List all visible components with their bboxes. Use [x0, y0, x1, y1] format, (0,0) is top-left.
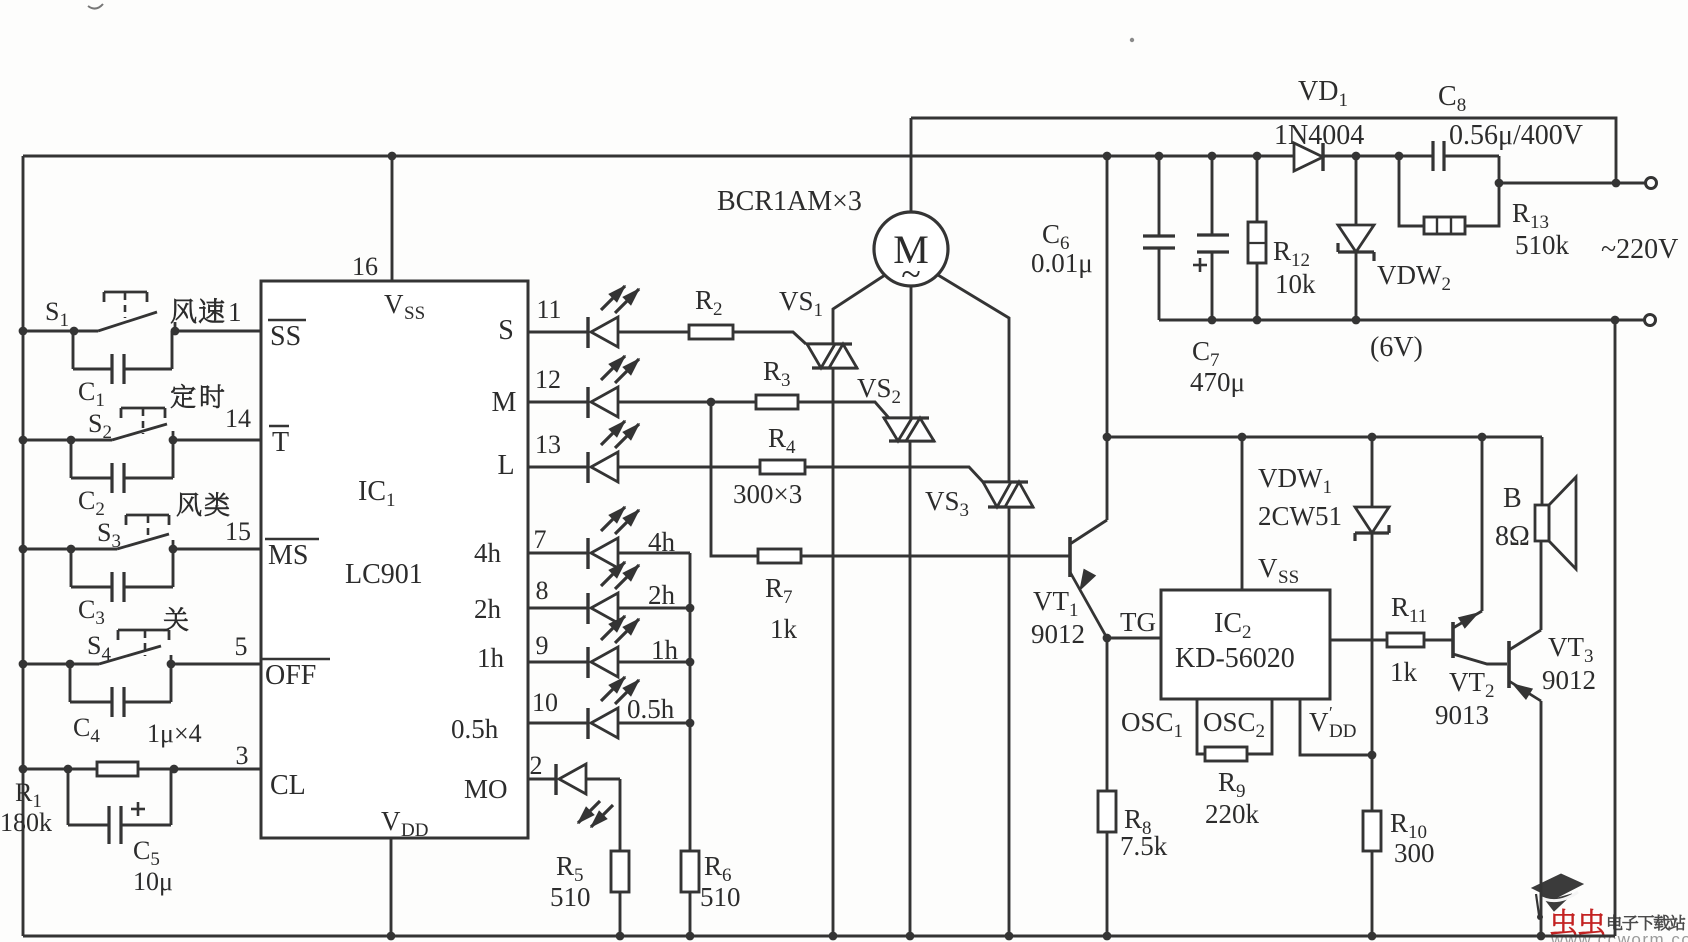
capacitor C3 — [70, 549, 73, 587]
svg-text:V: V — [1309, 707, 1329, 737]
svg-text:L: L — [497, 450, 514, 481]
svg-text:12: 12 — [535, 365, 561, 394]
svg-text:0.5h: 0.5h — [627, 694, 675, 724]
wire hour bus vertical — [689, 553, 692, 851]
svg-text:BCR1AM×3: BCR1AM×3 — [717, 186, 862, 217]
svg-text:300: 300 — [1394, 838, 1435, 868]
svg-text:1h: 1h — [477, 643, 505, 673]
pin VDD IC1 — [390, 838, 393, 936]
label guan — [164, 607, 188, 630]
resistor R2 — [689, 325, 733, 339]
zener VDW1 — [1371, 437, 1374, 507]
IC U1 LC901 box — [261, 281, 528, 838]
svg-text:9012: 9012 — [1542, 665, 1596, 695]
pin VSS IC1 — [391, 156, 394, 281]
triac VS3 — [982, 480, 1028, 483]
wire VS2 to rail — [909, 441, 912, 936]
wire VS1 to rail — [832, 368, 835, 936]
switch S1 — [23, 330, 98, 333]
wire left supply rail — [22, 156, 25, 936]
svg-text:9012: 9012 — [1031, 619, 1085, 649]
wire VS3 to rail — [1008, 507, 1011, 936]
wire R5 to rail — [619, 892, 622, 936]
svg-text:′: ′ — [1329, 703, 1333, 722]
wire AC line top y118 — [911, 118, 1616, 183]
svg-text:1h: 1h — [651, 635, 679, 665]
capacitor C4 — [69, 664, 72, 702]
pin OSC1 — [1197, 699, 1205, 754]
wire MO to R5 — [586, 778, 620, 781]
speaker B — [1541, 437, 1544, 505]
svg-text:TG: TG — [1120, 607, 1156, 637]
svg-text:0.56μ/400V: 0.56μ/400V — [1449, 120, 1583, 151]
diode VD1 1N4004 — [1294, 143, 1323, 171]
watermark site name — [1608, 915, 1622, 930]
wire R3 to VS2 gate — [798, 402, 889, 418]
svg-text:T: T — [272, 427, 289, 458]
svg-text:3: 3 — [236, 741, 249, 770]
svg-text:VDW2: VDW2 — [1377, 260, 1451, 295]
wire R2 to VS1 gate — [733, 332, 806, 344]
switch S4 — [23, 663, 99, 666]
motor M — [874, 212, 948, 286]
svg-text:180k: 180k — [0, 808, 52, 837]
svg-text:11: 11 — [536, 295, 561, 324]
label dingshi — [171, 384, 195, 408]
resistor R9 — [1205, 747, 1247, 761]
svg-text:2h: 2h — [474, 594, 502, 624]
svg-text:510k: 510k — [1515, 230, 1570, 260]
pin VDD2 — [1300, 699, 1372, 755]
svg-text:MS: MS — [268, 540, 308, 571]
svg-text:0.01μ: 0.01μ — [1031, 248, 1093, 278]
wire M junction to R7 — [711, 402, 758, 556]
wire R8 to rail — [1106, 832, 1109, 936]
svg-text:0.5h: 0.5h — [451, 714, 499, 744]
wire R6 to rail — [689, 892, 692, 936]
resistor R13 branch — [1399, 156, 1424, 226]
capacitor C6 — [1158, 156, 1161, 236]
svg-text:(6V): (6V) — [1370, 332, 1423, 363]
wire R4 to VS3 gate — [805, 467, 983, 482]
svg-text:1k: 1k — [770, 614, 798, 644]
label fengsu1 — [171, 299, 196, 323]
terminal circle AC line 1 — [1646, 178, 1657, 189]
svg-text:13: 13 — [535, 430, 561, 459]
svg-text:9013: 9013 — [1435, 700, 1489, 730]
wire 2h row to bus — [618, 607, 690, 610]
wire CL row — [23, 768, 261, 771]
resistor R8 — [1098, 791, 1116, 832]
transistor VT1 9012 — [1068, 537, 1072, 577]
scan artifact speck — [1130, 38, 1134, 42]
wire motor to VS1 — [833, 275, 885, 344]
svg-text:14: 14 — [225, 404, 251, 433]
watermark chongchong red — [1551, 909, 1576, 935]
svg-text:S: S — [498, 315, 514, 346]
svg-text:10: 10 — [532, 688, 558, 717]
svg-text:16: 16 — [352, 252, 378, 281]
triac VS1 — [806, 342, 852, 345]
wire top VSS rail y156 — [23, 155, 1433, 158]
wire S row — [618, 331, 689, 334]
svg-text:1N4004: 1N4004 — [1274, 120, 1364, 151]
transistor VT3 9012 — [1507, 641, 1511, 688]
pin OSC2 — [1247, 699, 1272, 754]
svg-text:B: B — [1503, 483, 1522, 514]
resistor R12 — [1256, 156, 1259, 222]
svg-text:MO: MO — [464, 774, 508, 804]
svg-text:220k: 220k — [1205, 799, 1260, 829]
resistor R11 — [1387, 633, 1424, 647]
wire R11 to VT2 — [1424, 639, 1453, 642]
wire right rail to bottom — [1614, 320, 1617, 936]
wire VSS2 rail — [1107, 436, 1542, 439]
svg-text:LC901: LC901 — [345, 559, 423, 590]
svg-text:SS: SS — [404, 303, 425, 324]
svg-text:2: 2 — [530, 751, 543, 780]
transistor VT2 9013 — [1451, 622, 1455, 658]
wire 1h row to bus — [618, 661, 690, 664]
svg-text:V: V — [381, 806, 401, 836]
wire motor to VS3 — [938, 275, 1009, 482]
svg-text:510: 510 — [550, 882, 591, 912]
capacitor C1 — [72, 331, 75, 369]
svg-text:8Ω: 8Ω — [1495, 521, 1530, 552]
LED D-MO pin2 — [528, 778, 556, 781]
wire R10 to rail — [1371, 851, 1374, 936]
resistor R7 — [758, 549, 801, 563]
capacitor C8 — [1431, 141, 1434, 171]
LED D-2h pin8 — [528, 607, 588, 610]
wire 4h row to bus — [618, 552, 690, 555]
svg-text:10k: 10k — [1275, 269, 1316, 299]
svg-text:300×3: 300×3 — [733, 479, 802, 509]
svg-text:OFF: OFF — [265, 660, 316, 691]
wire AC terminal line 1 — [1499, 182, 1645, 185]
zener VDW2 — [1355, 156, 1358, 225]
pin VSS IC2 — [1241, 437, 1244, 590]
wire L row — [618, 466, 760, 469]
LED D-4h pin7 — [528, 552, 588, 555]
node junctions AC line 1 — [1495, 179, 1504, 188]
LED D-S pin11 — [528, 331, 588, 334]
LED D-M pin12 — [528, 401, 588, 404]
scan artifact top-left — [88, 4, 103, 9]
switch S2 — [23, 439, 112, 442]
LED D-1h pin9 — [528, 661, 588, 664]
LED D-0.5h pin10 — [528, 722, 588, 725]
svg-text:2CW51: 2CW51 — [1258, 501, 1342, 531]
svg-text:8: 8 — [536, 576, 549, 605]
svg-text:10μ: 10μ — [133, 867, 173, 896]
svg-text:SS: SS — [270, 321, 301, 352]
svg-text:V: V — [384, 289, 404, 319]
svg-text:~220V: ~220V — [1601, 234, 1678, 265]
LED D-L pin13 — [528, 466, 588, 469]
wire motor top — [910, 118, 913, 212]
wire bottom common rail — [23, 935, 1615, 938]
svg-text:470μ: 470μ — [1190, 367, 1245, 397]
resistor R5 — [611, 851, 629, 892]
svg-text:1k: 1k — [1390, 657, 1418, 687]
svg-text:VDW1: VDW1 — [1258, 463, 1332, 498]
resistor R10 — [1363, 811, 1381, 851]
svg-text:510: 510 — [700, 882, 741, 912]
wire VSS2 vertical — [1106, 156, 1109, 437]
svg-text:CL: CL — [270, 770, 306, 801]
IC U2 KD-56020 box — [1161, 590, 1330, 699]
svg-text:1: 1 — [228, 297, 242, 327]
wire M row — [618, 401, 756, 404]
svg-text:DD: DD — [1329, 721, 1356, 742]
wire TG node — [1103, 634, 1112, 643]
watermark logo cap — [1532, 874, 1583, 899]
capacitor C2 — [70, 440, 73, 478]
svg-text:SS: SS — [1278, 567, 1299, 588]
capacitor C7 — [1211, 156, 1214, 235]
node junctions top rail — [388, 152, 397, 161]
resistor R1 — [97, 762, 138, 776]
capacitor C5 — [67, 769, 70, 825]
wire R7 to VT1 base — [801, 555, 1070, 558]
resistor R3 — [756, 395, 798, 409]
svg-text:4h: 4h — [474, 538, 502, 568]
wire 6V rail — [1159, 319, 1645, 322]
wire 0.5h row to bus — [618, 722, 690, 725]
triac VS2 — [883, 416, 929, 419]
resistor R4 — [760, 460, 805, 474]
svg-text:7.5k: 7.5k — [1120, 831, 1168, 861]
resistor R6 — [681, 851, 699, 892]
svg-text:7: 7 — [534, 525, 547, 554]
label fenglei — [177, 493, 201, 516]
svg-text:M: M — [492, 387, 517, 418]
svg-text:1μ×4: 1μ×4 — [147, 719, 202, 748]
wire R11 row — [1330, 639, 1387, 642]
switch S3 — [23, 548, 117, 551]
terminal circle AC line 2 — [1645, 315, 1656, 326]
svg-text:9: 9 — [536, 631, 549, 660]
svg-text:5: 5 — [235, 632, 248, 661]
svg-text:DD: DD — [401, 820, 428, 841]
wire motor to VS2 — [910, 286, 913, 418]
svg-text:15: 15 — [225, 517, 251, 546]
svg-text:KD-56020: KD-56020 — [1175, 643, 1295, 674]
svg-text:2h: 2h — [648, 580, 676, 610]
svg-text:V: V — [1258, 553, 1278, 583]
